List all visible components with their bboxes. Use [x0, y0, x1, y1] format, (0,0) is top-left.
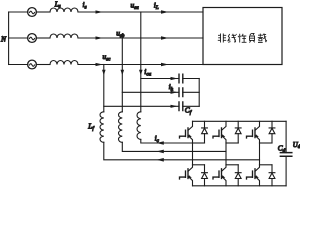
char XING — [238, 34, 246, 43]
svg-text:N: N — [0, 35, 7, 44]
DC negative rail — [193, 185, 287, 187]
svg-text:usb: usb — [116, 28, 125, 39]
svg-text:is: is — [83, 0, 87, 11]
diode D5 — [235, 165, 241, 186]
IGBT Q3 — [247, 121, 260, 143]
inductor Ls (phase C) — [50, 61, 78, 65]
char FEI — [218, 34, 226, 43]
AC source Vb — [28, 34, 37, 43]
diode D1 — [202, 121, 208, 143]
cap branch 3 right wire — [183, 105, 199, 107]
char XIAN — [228, 34, 237, 43]
inverter output wire 2 (middle) — [122, 142, 226, 151]
leg 1 midpoint junction bar — [193, 142, 205, 144]
arrow on drop C — [102, 70, 106, 76]
coupling inductor Lf3 (phase A leg) — [137, 112, 141, 140]
wire phase B to inductor — [36, 37, 50, 39]
coupling inductor Lf1 (phase C leg) — [100, 112, 104, 143]
inductor Ls (phase B) — [50, 34, 78, 38]
IGBT Q4 — [180, 165, 193, 186]
leg 2 midpoint junction bar — [226, 142, 238, 144]
cap branch 2 right wire — [183, 91, 199, 93]
char FU — [250, 33, 255, 42]
current arrow phase B source — [96, 36, 104, 39]
DC positive rail — [193, 120, 287, 122]
leg 1 bottom junction bar — [193, 164, 205, 166]
arrow ic3 (left) — [157, 158, 164, 162]
arrow ica on drop A — [139, 70, 143, 76]
capacitor Cd — [280, 153, 291, 157]
arrow on cap branch 2 — [171, 91, 178, 94]
leg 3 midpoint junction bar — [260, 142, 273, 144]
svg-text:usa: usa — [131, 1, 140, 12]
arrow on cap branch 1 — [171, 77, 178, 80]
injection branch phase A (drop wire) — [140, 12, 142, 112]
char ZAI — [258, 33, 267, 42]
injection branch phase C (drop wire) — [103, 65, 105, 112]
IGBT Q6 — [247, 165, 260, 186]
capacitor branch 1 wire (from phase A drop) — [141, 78, 179, 80]
current arrow iL — [161, 10, 169, 13]
leg 3 mid vertical wire — [259, 143, 261, 165]
diode D4 — [202, 165, 208, 186]
DC bus capacitor Cd wire top — [285, 121, 287, 152]
inverter output wire 1 (top) — [141, 139, 193, 143]
label nonlinear-load (hand-drawn CJK strokes) — [218, 33, 267, 42]
leg 1 mid vertical wire — [192, 143, 194, 165]
inductor Ls (phase A) — [50, 8, 78, 12]
leg 2 mid vertical wire — [225, 143, 227, 165]
DC bus capacitor Cd wire bottom — [285, 156, 287, 186]
capacitor star bus wire — [198, 79, 200, 107]
svg-text:ih: ih — [169, 82, 174, 93]
diode D3 — [269, 121, 275, 143]
capacitor Cf1 — [179, 74, 183, 83]
coupling inductor Lf2 (phase B leg) — [119, 112, 123, 143]
AC source Vc — [28, 60, 37, 69]
cap branch 1 right wire — [183, 78, 199, 80]
leg 3 bottom junction bar — [260, 164, 273, 166]
current arrow phase C load — [161, 63, 169, 66]
capacitor branch 3 wire (from phase C drop) — [104, 105, 179, 107]
wire phase B source side — [9, 37, 28, 39]
svg-text:iL: iL — [154, 1, 159, 12]
current arrow phase B load — [161, 36, 169, 39]
leg 2 bottom junction bar — [226, 164, 238, 166]
nonlinear load box — [203, 8, 282, 65]
wire phase C source side — [9, 64, 28, 66]
wire phase A to load — [78, 11, 203, 13]
arrow ic2 (left) — [157, 150, 164, 154]
inverter output wire 3 (bottom) — [104, 142, 260, 160]
capacitor branch 2 wire (from phase B drop) — [122, 91, 179, 93]
diode D6 — [269, 165, 275, 186]
svg-text:usc: usc — [103, 52, 112, 63]
svg-text:Udc: Udc — [293, 142, 300, 150]
injection branch phase B (drop wire) — [121, 38, 123, 112]
neutral bus wire — [8, 12, 10, 65]
current arrow is — [96, 10, 104, 13]
arrow ic1 (left) — [157, 141, 164, 145]
AC source Va — [28, 8, 37, 17]
svg-text:Lf: Lf — [87, 121, 94, 132]
capacitor Cf2 — [179, 88, 183, 97]
diode D2 — [235, 121, 241, 143]
wire phase A to inductor — [36, 11, 50, 13]
IGBT Q1 — [180, 121, 193, 143]
wire phase C to load — [78, 64, 203, 66]
arrow on cap branch 3 — [171, 105, 178, 108]
svg-text:Cd: Cd — [278, 143, 286, 154]
capacitor Cf3 — [179, 102, 183, 111]
IGBT Q5 — [213, 165, 226, 186]
wire phase C to inductor — [36, 64, 50, 66]
svg-text:Cf: Cf — [185, 106, 192, 117]
IGBT Q2 — [213, 121, 226, 143]
wire phase A source side — [9, 11, 28, 13]
current arrow phase C source — [96, 63, 104, 66]
wire phase B to load — [78, 37, 203, 39]
svg-text:ica: ica — [144, 67, 151, 78]
svg-text:ic: ic — [155, 134, 160, 145]
arrow on drop B — [121, 70, 125, 76]
